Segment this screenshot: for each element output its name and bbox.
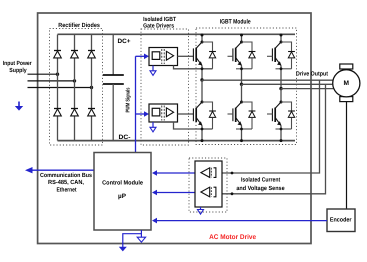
transistor Q4 (bottom) [241, 84, 243, 102]
transistor Q1 [193, 42, 202, 66]
diode D10 branch [242, 102, 253, 111]
diode D12 branch [281, 102, 292, 111]
diode D6 [88, 109, 96, 116]
isolated sense dotted box [189, 158, 227, 212]
wire phase B collector + node dots [241, 35, 243, 42]
driver U2 gate wire [178, 113, 194, 115]
input junction dots [56, 73, 59, 76]
svg-text:Control Module: Control Module [102, 179, 144, 186]
svg-text:Ethernet: Ethernet [57, 186, 77, 193]
svg-text:Drive Output: Drive Output [296, 71, 328, 78]
diode D7 branch [202, 42, 213, 52]
current sense tap phase A [222, 80, 320, 173]
diode D8 branch [202, 102, 213, 111]
rectifier column 2 wire [74, 35, 76, 141]
motor M [333, 64, 360, 102]
gate driver U2 [149, 104, 178, 122]
svg-text:Communication Bus: Communication Bus [40, 172, 93, 179]
transistor Q3 [233, 42, 242, 66]
gate stub Q top phase 241.5 [228, 55, 233, 57]
wire phase A collector + node dots [201, 35, 203, 42]
DC+ rail [58, 33, 296, 35]
input power wires [28, 73, 58, 75]
diode D11 branch [281, 42, 292, 52]
enclosure border [38, 13, 311, 244]
gate driver U1 [149, 48, 178, 66]
gate stub Q bottom phase 281 [267, 113, 272, 115]
drive output wire A [202, 79, 333, 81]
driver U1 emitter return wire [174, 66, 213, 69]
gate stub Q bottom phase 241.5 [228, 113, 233, 115]
svg-text:M: M [344, 80, 350, 87]
transistor Q6 (bottom) [280, 89, 282, 102]
node: sense input A dot [231, 172, 234, 175]
sense feedback wire 2 (blue) [157, 192, 196, 194]
gate drivers dotted box [141, 29, 189, 145]
sense module ground [200, 207, 202, 210]
encoder feedback wire (blue) [157, 220, 328, 222]
gate stub Q top phase 281 [267, 55, 272, 57]
diode D1 [54, 51, 62, 58]
svg-text:DC+: DC+ [118, 38, 131, 45]
svg-text:Isolated Current: Isolated Current [241, 176, 280, 183]
svg-text:Gate Drivers: Gate Drivers [143, 23, 175, 30]
drive output wire C [281, 88, 333, 90]
diode D5 [71, 109, 79, 116]
input ground arrow (blue) [15, 102, 23, 111]
svg-text:Encoder: Encoder [330, 217, 352, 224]
emitter node wire [241, 66, 243, 85]
drive output wire B [242, 83, 333, 85]
svg-text:RS-485, CAN,: RS-485, CAN, [48, 179, 84, 186]
svg-text:DC-: DC- [119, 134, 131, 141]
svg-text:Isolated IGBT: Isolated IGBT [143, 16, 176, 23]
emitter node wire [280, 66, 282, 89]
svg-text:Input Power: Input Power [3, 60, 32, 67]
PWM branch to driver 2 [136, 113, 145, 115]
diode D2 [71, 51, 79, 58]
diode D3 [88, 51, 96, 58]
svg-text:IGBT Module: IGBT Module [220, 18, 251, 25]
current sense tap phase B [222, 84, 326, 194]
control module ground network (blue) [140, 230, 142, 237]
node: sense input B dot [231, 192, 234, 195]
emitter node wire [201, 66, 203, 80]
driver U2 emitter return wire [174, 122, 213, 129]
motor shaft wire to encoder [346, 101, 348, 209]
sense amplifier A2 [201, 187, 216, 197]
driver U1 gate wire [178, 55, 194, 57]
svg-text:Rectifier Diodes: Rectifier Diodes [58, 22, 100, 29]
transistor Q5 [272, 42, 281, 66]
isolated sense module box [195, 161, 222, 207]
DC- rail [58, 140, 296, 142]
driver U1 ground [152, 66, 154, 71]
rectifier column 1 wire [57, 35, 59, 141]
control module box [94, 153, 151, 231]
wire phase C collector + node dots [280, 35, 282, 42]
PWM branch to driver 1 [136, 55, 145, 57]
svg-text:µP: µP [118, 193, 127, 200]
driver U2 ground [152, 122, 154, 127]
rectifier dotted box [50, 29, 103, 146]
rectifier column 3 wire [91, 35, 93, 141]
diode D4 [54, 109, 62, 116]
encoder box [327, 209, 355, 232]
svg-text:Supply: Supply [9, 67, 27, 74]
communication bus wire (blue) [31, 169, 94, 171]
DC bus capacitor C1 [103, 35, 124, 141]
diode D9 branch [242, 42, 253, 52]
sense feedback wire 1 (blue) [157, 172, 196, 174]
sense amplifier A1 [201, 168, 216, 178]
svg-text:and Voltage Sense: and Voltage Sense [236, 185, 285, 192]
transistor Q2 (bottom) [201, 80, 203, 102]
svg-text:PWM Signals: PWM Signals [126, 88, 132, 113]
PWM bus (blue) [135, 56, 137, 152]
svg-text:AC Motor Drive: AC Motor Drive [209, 234, 256, 241]
IGBT module dotted box [196, 28, 297, 145]
